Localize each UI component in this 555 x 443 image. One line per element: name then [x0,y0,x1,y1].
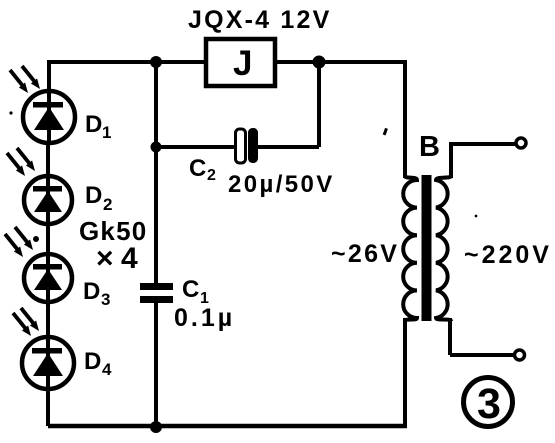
svg-text:2: 2 [103,195,112,214]
transformer core [422,175,432,321]
figure number 3 (circled) [464,378,513,429]
svg-text:4: 4 [121,242,138,275]
wire: C2 branch vertical up to top rail [317,62,321,147]
label D2 [85,182,112,214]
wire: secondary bottom lead [448,318,452,355]
wire: right vertical rail upper [403,60,407,178]
svg-text:C: C [182,276,199,303]
terminal (bottom right) [515,350,525,360]
svg-text:4: 4 [102,360,112,379]
node dot C (middle vertical / C2 branch) [151,142,162,153]
transformer B secondary winding [436,176,451,321]
svg-text:J: J [233,44,252,83]
label C2 [189,155,216,184]
photodiode D2 [24,143,72,254]
light arrows at D3 [5,227,33,257]
transformer B primary winding [403,176,417,321]
speck left of D1 [9,111,12,114]
svg-text:3: 3 [101,290,110,309]
svg-text:D: D [84,348,101,375]
light arrows at D2 [7,148,35,176]
svg-text:×: × [96,242,114,275]
capacitor C2 (electrolytic) [236,128,259,163]
svg-text:C: C [189,155,206,182]
wire: middle vertical (above C1) [154,62,158,284]
speck near top-right corner [383,128,388,136]
photodiode D4 [22,337,74,426]
svg-text:D: D [85,111,102,138]
wire: left vertical rail top stub [47,60,51,95]
label Gk50 x4 [79,216,147,275]
speck near ~220V label [475,215,478,218]
svg-text:B: B [419,131,440,163]
capacitor C1 [140,283,173,303]
svg-text:2: 2 [207,167,216,184]
svg-text:1: 1 [102,123,111,142]
wire: right vertical rail lower [403,318,407,428]
terminal (top right) [516,138,526,148]
wire: secondary bottom lead horizontal [450,353,514,357]
wire: secondary top lead [451,144,516,178]
relay coil box J [206,39,275,86]
label D1 [85,111,111,142]
svg-text:3: 3 [477,380,501,428]
label C1 [182,276,209,307]
wire: bottom horizontal rail [48,424,407,429]
wire: C2 branch right segment [256,145,319,149]
node dot A (top rail / middle vertical) [150,56,162,68]
wire: top horizontal rail [50,60,407,64]
node dot D (bottom rail / middle vertical) [150,421,162,433]
light arrows at D1 [10,66,40,93]
photodiode D3 [24,254,72,339]
speck near D3 arrows [33,236,39,242]
photodiode D1 [23,91,75,143]
svg-text:20µ/50V: 20µ/50V [228,171,335,198]
svg-text:JQX-4 12V: JQX-4 12V [188,6,331,34]
node dot B (top rail / C2 branch) [313,56,326,69]
label D3 [83,278,110,309]
svg-text:~220V: ~220V [464,241,552,269]
wire: middle vertical (below C1) [154,302,158,426]
svg-text:D: D [83,278,100,305]
svg-text:D: D [85,182,102,209]
svg-text:~26V: ~26V [331,240,399,268]
svg-text:0.1µ: 0.1µ [174,304,235,332]
label D4 [84,348,112,379]
light arrows at D4 [13,308,39,336]
wire: C2 branch left segment [156,145,236,149]
